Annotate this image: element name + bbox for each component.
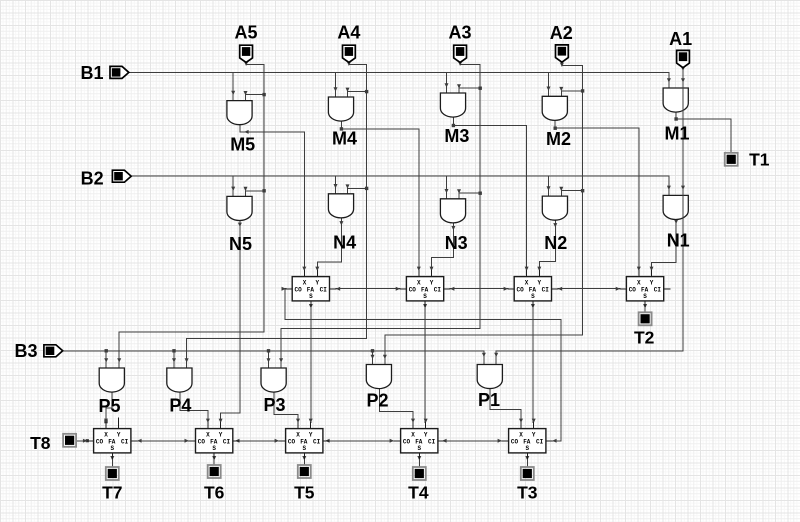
- full adder FA2-T7: [87, 423, 137, 459]
- full adder FA1a: [286, 271, 336, 307]
- wire A5 net trunk: [117, 62, 264, 368]
- label M2: [546, 129, 571, 149]
- label T3: [517, 483, 538, 503]
- svg-text:S: S: [417, 445, 421, 452]
- wire FA1c S to FA2-3 Y: [531, 304, 536, 423]
- wire B2 to N5 left input: [231, 176, 235, 196]
- wire P4 output to FA2-6 X: [180, 392, 210, 423]
- label P4: [169, 395, 191, 415]
- label N4: [333, 233, 356, 253]
- svg-text:X: X: [411, 432, 415, 439]
- svg-text:S: S: [110, 445, 114, 452]
- svg-text:Y: Y: [537, 280, 541, 287]
- wire FA1a S to FA2-5 Y: [309, 304, 313, 423]
- svg-text:P5: P5: [98, 396, 120, 416]
- AND gate N3: [440, 199, 465, 223]
- output pin T7: [106, 467, 119, 480]
- input pin B3: [44, 345, 63, 357]
- svg-text:CO: CO: [96, 439, 104, 446]
- svg-text:B3: B3: [14, 341, 37, 361]
- full adder FA1b: [400, 271, 450, 307]
- svg-text:Y: Y: [430, 280, 434, 287]
- label N5: [229, 234, 252, 254]
- input pin A1: [677, 50, 690, 67]
- wire B1 to M5 left input: [231, 72, 235, 100]
- svg-text:A4: A4: [337, 22, 360, 42]
- wire N4 output to FA1a Y: [315, 218, 343, 271]
- svg-text:M2: M2: [546, 129, 571, 149]
- wire P2 output to FA2-4 X: [379, 389, 415, 424]
- svg-text:CI: CI: [223, 439, 231, 446]
- wire A3 branch to N3 right input: [457, 189, 482, 199]
- svg-text:N3: N3: [445, 233, 468, 253]
- svg-text:CI: CI: [428, 439, 436, 446]
- svg-text:X: X: [519, 432, 523, 439]
- wire A3 net trunk: [279, 62, 480, 368]
- wire FA2-3 S to pin T3: [525, 456, 529, 467]
- svg-text:X: X: [104, 432, 108, 439]
- svg-text:T4: T4: [408, 483, 429, 503]
- svg-text:N1: N1: [667, 230, 690, 250]
- svg-text:A2: A2: [550, 23, 573, 43]
- wire FA2-5 CO to FA2-6 CI: [235, 439, 279, 443]
- svg-text:T2: T2: [634, 327, 655, 347]
- svg-text:S: S: [423, 293, 427, 300]
- svg-text:Y: Y: [219, 432, 223, 439]
- wire A2 branch to M2 right input: [559, 87, 584, 96]
- svg-text:X: X: [303, 280, 307, 287]
- AND gate M5: [227, 101, 252, 125]
- wire A4 branch to N4 right input: [346, 184, 369, 193]
- wire M1 output to pin T1: [674, 112, 731, 153]
- wire B2 to N2 left input: [547, 176, 551, 196]
- wire M5 output to FA1a X: [240, 125, 306, 271]
- AND gate P5: [99, 368, 124, 392]
- wire B3 to P2 left input: [371, 349, 375, 364]
- wire P5 output to FA2-7 X: [104, 392, 112, 423]
- wire B3 trunk: [63, 350, 484, 352]
- wire FA2-5 S to pin T5: [302, 456, 306, 465]
- input pin A4: [343, 45, 356, 62]
- wire B2 to N3 left input: [445, 176, 449, 199]
- label P2: [366, 391, 388, 411]
- wire A4 net trunk: [185, 62, 367, 368]
- label A3: [448, 22, 471, 42]
- output pin T4: [413, 467, 426, 480]
- svg-text:Y: Y: [532, 432, 536, 439]
- svg-text:M1: M1: [664, 124, 689, 144]
- wire N2 output to FA1c Y: [537, 220, 557, 271]
- label P3: [263, 395, 285, 415]
- svg-text:X: X: [417, 280, 421, 287]
- svg-text:S: S: [309, 293, 313, 300]
- input pin A5: [240, 45, 253, 62]
- AND gate M1: [663, 88, 688, 112]
- svg-text:T1: T1: [749, 150, 770, 170]
- svg-text:CO: CO: [409, 287, 417, 294]
- svg-text:CI: CI: [320, 287, 328, 294]
- wire B2 to N1 left input: [667, 176, 671, 195]
- wire M3 output to FA1c X: [452, 117, 529, 271]
- svg-text:A1: A1: [669, 29, 692, 49]
- output pin T2: [639, 312, 652, 325]
- label N2: [544, 233, 567, 253]
- svg-text:N2: N2: [544, 233, 567, 253]
- wire B2 trunk: [132, 175, 669, 177]
- label B1: [80, 63, 103, 83]
- wire FA2-6 CO to FA2-7 CI: [137, 439, 189, 443]
- svg-text:X: X: [206, 432, 210, 439]
- svg-text:CI: CI: [121, 439, 129, 446]
- svg-text:CO: CO: [288, 439, 296, 446]
- wire A1 net trunk: [494, 67, 685, 365]
- label M1: [664, 124, 689, 144]
- svg-text:T7: T7: [102, 483, 122, 503]
- svg-text:CO: CO: [198, 439, 206, 446]
- svg-text:S: S: [525, 445, 529, 452]
- AND gate N4: [328, 194, 353, 218]
- wire FA2-7 S to pin T7: [110, 456, 114, 467]
- wire A5 branch to N5 right input: [244, 187, 266, 197]
- svg-text:M4: M4: [332, 129, 357, 149]
- output pin T1: [725, 153, 738, 166]
- wire FA2-7 CO to pin T8: [76, 439, 89, 443]
- AND gate M4: [328, 97, 353, 121]
- svg-text:Y: Y: [424, 432, 428, 439]
- svg-text:N5: N5: [229, 234, 252, 254]
- wire FA2-6 S to pin T6: [212, 456, 216, 465]
- svg-text:X: X: [525, 280, 529, 287]
- stub FA2-7 Y unconnected: [118, 418, 120, 429]
- full adder FA1c: [508, 271, 558, 307]
- wire N1 output to FA1d Y: [650, 219, 679, 271]
- label P1: [478, 390, 500, 410]
- AND gate P4: [167, 368, 192, 392]
- svg-text:X: X: [637, 280, 641, 287]
- label M4: [332, 129, 357, 149]
- svg-text:B1: B1: [80, 63, 103, 83]
- AND gate M3: [440, 93, 465, 117]
- svg-text:Y: Y: [309, 432, 313, 439]
- label M3: [444, 126, 469, 146]
- svg-text:T6: T6: [204, 483, 225, 503]
- label T4: [408, 483, 429, 503]
- svg-text:CI: CI: [654, 287, 662, 294]
- svg-text:N4: N4: [333, 233, 356, 253]
- AND gate P3: [261, 368, 286, 392]
- wire A3 branch to M3 right input: [457, 84, 482, 93]
- input pin A3: [454, 45, 467, 62]
- wire A4 branch to M4 right input: [346, 88, 369, 97]
- wire FA1c CO to FA1b CI: [450, 287, 508, 291]
- svg-text:P1: P1: [478, 390, 500, 410]
- AND gate P2: [366, 365, 391, 389]
- svg-text:A3: A3: [448, 22, 471, 42]
- svg-text:B2: B2: [81, 168, 104, 188]
- label P5: [98, 396, 120, 416]
- svg-text:M3: M3: [444, 126, 469, 146]
- svg-text:CI: CI: [313, 439, 321, 446]
- label A1: [669, 29, 692, 49]
- output pin T5: [298, 465, 311, 478]
- label T1: [749, 150, 770, 170]
- wire FA1b CO to FA1a CI: [336, 287, 400, 291]
- wire B1 to M1 left input: [667, 72, 671, 88]
- wire B3 to P3 left input: [267, 349, 271, 368]
- wire FA1a CO to FA2-3 CI: [282, 287, 561, 443]
- wire M2 output to FA1d X: [554, 120, 641, 271]
- svg-text:CI: CI: [542, 287, 550, 294]
- svg-text:T3: T3: [517, 483, 538, 503]
- svg-text:CO: CO: [516, 287, 524, 294]
- label N1: [667, 230, 690, 250]
- wire B1 to M2 left input: [547, 72, 551, 96]
- wire B3 to P5 left input: [104, 349, 108, 368]
- svg-text:T5: T5: [294, 483, 315, 503]
- svg-text:CO: CO: [629, 287, 637, 294]
- label M5: [230, 134, 255, 154]
- svg-text:S: S: [531, 293, 535, 300]
- wire B3 to P4 left input: [172, 349, 176, 368]
- svg-text:P2: P2: [366, 391, 388, 411]
- wire B1 to M4 left input: [334, 72, 338, 97]
- input pin B2: [112, 170, 131, 182]
- svg-text:P4: P4: [169, 395, 191, 415]
- wire M4 output to FA1b X: [340, 121, 421, 271]
- label T5: [294, 483, 315, 503]
- wire FA1b S to FA2-4 Y: [423, 304, 428, 423]
- label A4: [337, 22, 360, 42]
- wire B2 to N4 left input: [334, 176, 338, 194]
- wire B3 to P1 left input: [482, 351, 486, 365]
- wire P3 output to FA2-5 X: [274, 392, 300, 423]
- output pin T3: [521, 467, 534, 480]
- wire A5 branch to M5 right input: [244, 91, 266, 101]
- label T8: [30, 433, 51, 453]
- input pin B1: [110, 66, 129, 78]
- wire B1 trunk: [129, 71, 669, 73]
- svg-text:M5: M5: [230, 134, 255, 154]
- wire FA2-4 S to pin T4: [417, 456, 421, 467]
- AND gate N5: [227, 196, 252, 220]
- label A5: [234, 22, 257, 42]
- label A2: [550, 23, 573, 43]
- svg-text:Y: Y: [650, 280, 654, 287]
- svg-text:S: S: [643, 293, 647, 300]
- full adder FA2-T6: [189, 423, 239, 459]
- label B3: [14, 341, 37, 361]
- wire FA1d S to pin T2: [643, 304, 647, 312]
- AND gate N1: [663, 195, 688, 219]
- wire FA2-4 CO to FA2-5 CI: [325, 439, 394, 443]
- output pin T8: [63, 434, 76, 447]
- AND gate N2: [542, 196, 567, 220]
- label T7: [102, 483, 122, 503]
- label B2: [81, 168, 104, 188]
- svg-text:CI: CI: [536, 439, 544, 446]
- wire A2 branch to N2 right input: [559, 187, 584, 196]
- svg-text:Y: Y: [315, 280, 319, 287]
- AND gate P1: [477, 365, 502, 389]
- svg-text:P3: P3: [263, 395, 285, 415]
- label N3: [445, 233, 468, 253]
- svg-text:S: S: [212, 445, 216, 452]
- input pin A2: [556, 45, 569, 62]
- label T2: [634, 327, 655, 347]
- full adder FA1d: [620, 271, 670, 307]
- svg-text:CO: CO: [294, 287, 302, 294]
- svg-text:Y: Y: [117, 432, 121, 439]
- wire A1 vertical over gates: [682, 80, 684, 230]
- svg-text:X: X: [296, 432, 300, 439]
- svg-text:A5: A5: [234, 22, 257, 42]
- wire N3 output to FA1b Y: [430, 223, 456, 271]
- full adder FA2-T3: [502, 423, 552, 459]
- wire N5 output to FA2-6 Y: [219, 220, 242, 423]
- full adder FA2-T4: [394, 423, 444, 459]
- wire P1 output to FA2-3 X: [490, 389, 523, 424]
- svg-text:T8: T8: [30, 433, 51, 453]
- svg-text:CO: CO: [511, 439, 519, 446]
- svg-text:CI: CI: [434, 287, 442, 294]
- svg-text:CO: CO: [403, 439, 411, 446]
- output pin T6: [208, 465, 221, 478]
- wire B1 to M3 left input: [445, 72, 449, 93]
- wire A2 net trunk: [383, 63, 583, 365]
- wire FA2-3 CO to FA2-4 CI: [442, 439, 502, 443]
- AND gate M2: [542, 96, 567, 120]
- full adder FA2-T5: [279, 423, 329, 459]
- label T6: [204, 483, 225, 503]
- wire FA1d CO to FA1c CI: [558, 287, 620, 291]
- svg-text:S: S: [302, 445, 306, 452]
